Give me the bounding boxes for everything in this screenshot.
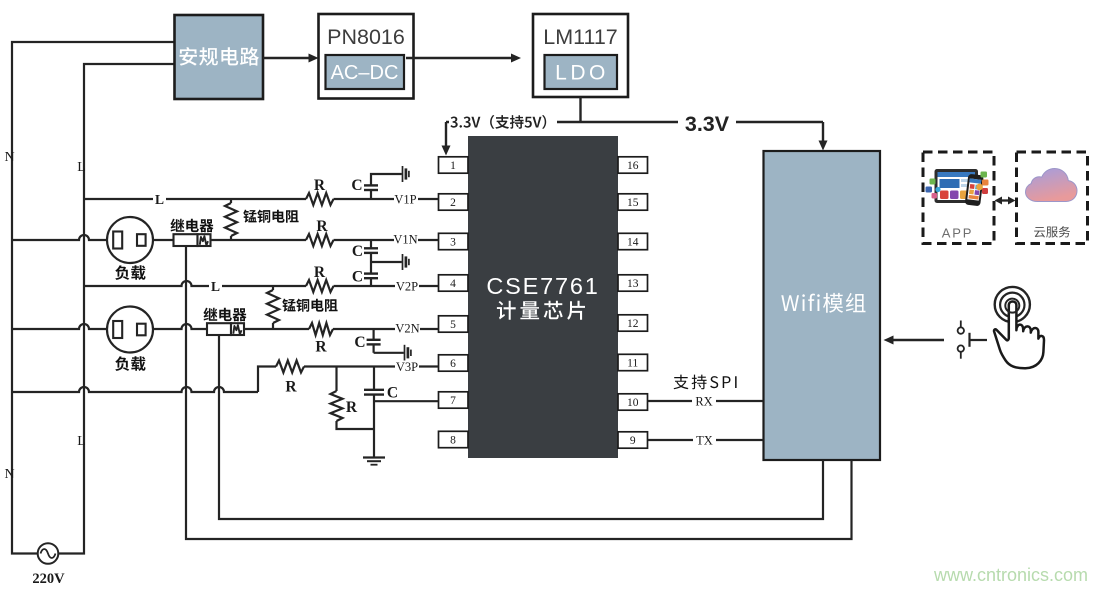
- wire R2 to V1N pin3: [334, 239, 439, 241]
- label V1P: [394, 193, 418, 206]
- wire N to load1: [12, 235, 107, 240]
- relay K2: [204, 308, 247, 322]
- wire C4 to ground: [374, 352, 404, 354]
- chip U1 CSE7761: [468, 136, 618, 458]
- wire 3.3V to wifi arrow: [822, 122, 824, 143]
- svg-text:7: 7: [450, 395, 456, 407]
- svg-text:2: 2: [450, 197, 456, 209]
- pin 15: [618, 194, 648, 210]
- svg-text:LM1117: LM1117: [543, 25, 618, 49]
- wire R4 to V2N pin5: [333, 328, 439, 330]
- ground C4: [404, 345, 406, 361]
- wire relay K2 to wifi: [219, 335, 823, 519]
- wire R5 to V3P pin6: [304, 365, 439, 367]
- capacitor C5: [373, 367, 375, 390]
- label RX: [692, 394, 716, 407]
- pin 2: [439, 194, 469, 210]
- icon APP tablet: [926, 169, 989, 206]
- shunt resistor manganin 2: [272, 286, 274, 290]
- svg-text:N: N: [4, 150, 14, 165]
- svg-text:R: R: [314, 177, 326, 194]
- pin 6: [439, 355, 469, 371]
- label 3.3V bold: [678, 111, 736, 134]
- pin 9: [618, 432, 648, 448]
- load socket 2: [107, 307, 153, 353]
- svg-text:R: R: [314, 264, 326, 281]
- svg-text:C: C: [352, 269, 363, 286]
- box 安规电路: [175, 15, 264, 99]
- pin 14: [618, 233, 648, 249]
- wire RX pin10 to wifi: [648, 400, 764, 402]
- label 支持SPI: [674, 375, 737, 390]
- svg-text:3: 3: [450, 237, 456, 249]
- svg-text:www.cntronics.com: www.cntronics.com: [933, 565, 1088, 585]
- svg-text:RX: RX: [695, 395, 712, 409]
- svg-text:C: C: [351, 177, 362, 194]
- wire N bottom to V3P riser: [12, 387, 258, 392]
- svg-text:13: 13: [627, 278, 639, 290]
- pin 11: [618, 354, 648, 370]
- capacitor C4: [373, 329, 375, 340]
- svg-text:11: 11: [627, 358, 638, 370]
- svg-text:5: 5: [450, 319, 456, 331]
- svg-text:8: 8: [450, 435, 456, 447]
- box LM1117: [533, 14, 628, 97]
- svg-text:C: C: [354, 334, 365, 351]
- svg-text:9: 9: [630, 435, 636, 447]
- capacitor C1: [370, 190, 372, 199]
- wire riser to V3P: [258, 367, 276, 393]
- svg-text:3.3V: 3.3V: [685, 112, 730, 136]
- arrow switch to wifi: [887, 339, 944, 341]
- label V2N: [395, 322, 420, 335]
- wire N to load2: [12, 324, 107, 329]
- load socket 1: [107, 217, 153, 263]
- resistor R1: [306, 193, 333, 205]
- resistor R2: [306, 234, 333, 246]
- svg-text:L: L: [77, 434, 86, 449]
- pin 13: [618, 275, 648, 291]
- svg-text:R: R: [316, 218, 328, 235]
- svg-text:R: R: [346, 399, 358, 416]
- relay K1: [171, 219, 214, 233]
- pin 16: [618, 157, 648, 173]
- label V3P: [395, 361, 419, 374]
- wire TX pin9 to wifi: [648, 439, 764, 441]
- svg-text:12: 12: [627, 318, 639, 330]
- wire relay K2 to R4: [244, 328, 309, 330]
- ground G4: [363, 456, 385, 458]
- wire relay K1 to R2: [211, 239, 307, 241]
- svg-text:L: L: [155, 192, 164, 207]
- resistor R4: [309, 323, 333, 335]
- label V1N: [394, 233, 418, 246]
- resistor R3: [306, 280, 333, 292]
- wire 3.3V rail: [446, 121, 823, 123]
- svg-text:L: L: [211, 279, 220, 294]
- box PN8016: [319, 14, 414, 99]
- label 云服务: [1034, 226, 1070, 237]
- wire LDO to 3.3V rail: [579, 97, 581, 122]
- capacitor C2: [370, 240, 372, 248]
- svg-text:APP: APP: [942, 226, 973, 241]
- module Wifi box: [764, 151, 881, 460]
- arrow 安规电路 to PN8016: [263, 57, 311, 59]
- wire C2 to ground: [371, 261, 402, 263]
- svg-text:220V: 220V: [32, 571, 65, 587]
- resistor R5: [276, 361, 304, 373]
- switch S1: [960, 321, 962, 328]
- AC source 220V: [38, 543, 59, 564]
- pin 5: [439, 316, 469, 332]
- pin 10: [618, 394, 648, 410]
- wire L2 to V2P pin4: [84, 281, 306, 286]
- svg-text:15: 15: [627, 197, 639, 209]
- svg-text:V1P: V1P: [394, 193, 416, 207]
- svg-text:16: 16: [627, 160, 639, 172]
- svg-text:R: R: [315, 339, 327, 356]
- label L wire1: [153, 192, 166, 205]
- label V2P: [395, 280, 419, 293]
- label TX: [693, 433, 716, 446]
- svg-text:10: 10: [627, 397, 639, 409]
- pin 7: [439, 392, 469, 408]
- pin 1: [439, 157, 469, 173]
- wire load2 to relay K2: [153, 324, 207, 329]
- resistor R6 vertical: [335, 367, 337, 392]
- svg-text:6: 6: [450, 358, 456, 370]
- svg-text:R: R: [285, 379, 297, 396]
- pin 8: [439, 431, 469, 447]
- hand touch icon: [995, 287, 1030, 322]
- svg-text:14: 14: [627, 237, 639, 249]
- svg-text:V3P: V3P: [396, 360, 418, 374]
- wire 3.3V to pin1 arrow: [445, 122, 447, 148]
- box APP dashed: [923, 152, 994, 244]
- shunt resistor manganin 1: [230, 199, 232, 203]
- pin 4: [439, 275, 469, 291]
- ground C2: [402, 254, 404, 270]
- wire L1 to V1P pin2: [84, 198, 306, 200]
- pin 12: [618, 315, 648, 331]
- label L wire2: [209, 279, 222, 292]
- pin 3: [439, 233, 469, 249]
- wire L rail: [58, 64, 174, 554]
- svg-text:L: L: [77, 160, 86, 175]
- svg-text:N: N: [4, 467, 14, 482]
- arrow PN8016 to LM1117: [406, 57, 514, 59]
- svg-text:PN8016: PN8016: [327, 25, 405, 49]
- arrow APP-cloud: [1000, 199, 1010, 201]
- label 3.3V (support 5V): [449, 113, 557, 131]
- box LDO: [545, 55, 618, 89]
- svg-text:TX: TX: [696, 434, 713, 448]
- svg-text:V1N: V1N: [393, 233, 417, 247]
- svg-text:LDO: LDO: [555, 62, 609, 85]
- box AC-DC: [326, 55, 405, 89]
- wire N rail: [12, 42, 174, 554]
- wire load1 to relay K1: [153, 239, 174, 241]
- wire C5 to pin7: [374, 400, 439, 402]
- svg-text:AC–DC: AC–DC: [331, 62, 399, 84]
- svg-text:V2N: V2N: [395, 322, 419, 336]
- svg-text:V2P: V2P: [396, 280, 418, 294]
- svg-text:C: C: [387, 385, 398, 402]
- svg-text:C: C: [352, 243, 363, 260]
- svg-text:4: 4: [450, 278, 456, 290]
- capacitor C3: [370, 262, 372, 274]
- box cloud 云服务 dashed: [1017, 152, 1088, 244]
- svg-text:1: 1: [450, 160, 456, 172]
- svg-text:CSE7761: CSE7761: [486, 273, 599, 299]
- ground C1: [402, 166, 404, 182]
- wire relay K1 to wifi: [186, 246, 852, 539]
